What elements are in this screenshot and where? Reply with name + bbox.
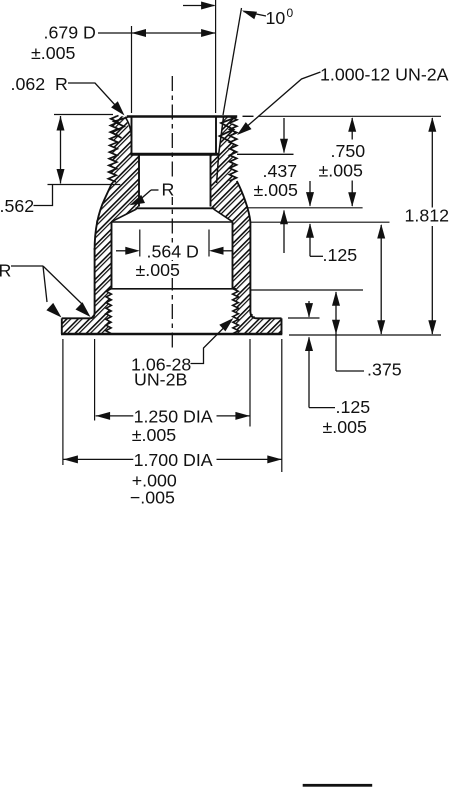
svg-text:±.005: ±.005 — [136, 260, 180, 280]
svg-text:.562: .562 — [0, 196, 34, 216]
svg-text:.564 D: .564 D — [147, 242, 199, 262]
svg-text:.125: .125 — [336, 397, 371, 417]
svg-text:±.005: ±.005 — [323, 417, 367, 437]
svg-text:.750: .750 — [331, 141, 366, 161]
svg-text:±.005: ±.005 — [254, 180, 298, 200]
svg-text:±.005: ±.005 — [31, 43, 75, 63]
svg-text:.375: .375 — [367, 360, 402, 380]
svg-text:0: 0 — [287, 6, 294, 20]
svg-text:±.005: ±.005 — [319, 161, 363, 181]
svg-text:10: 10 — [266, 8, 286, 28]
svg-text:R: R — [0, 261, 12, 281]
svg-text:.437: .437 — [263, 161, 298, 181]
svg-text:±.005: ±.005 — [132, 425, 176, 445]
svg-text:UN-2B: UN-2B — [134, 370, 187, 390]
svg-text:1.000-12 UN-2A: 1.000-12 UN-2A — [320, 65, 449, 85]
svg-text:1.700 DIA: 1.700 DIA — [134, 450, 213, 470]
svg-text:1.250 DIA: 1.250 DIA — [134, 406, 213, 426]
svg-text:−.005: −.005 — [130, 488, 175, 508]
svg-text:.679 D: .679 D — [44, 23, 96, 43]
svg-text:1.812: 1.812 — [405, 206, 449, 226]
svg-text:R: R — [162, 180, 175, 200]
svg-text:.125: .125 — [323, 245, 358, 265]
svg-text:.062 R: .062 R — [11, 74, 68, 94]
